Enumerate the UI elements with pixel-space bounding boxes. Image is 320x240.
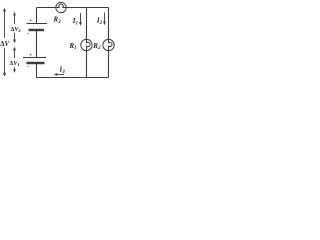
svg-text:ΔV: ΔV [0, 41, 9, 48]
svg-text:+: + [29, 18, 32, 24]
svg-text:−: − [26, 31, 29, 37]
svg-text:−: − [27, 64, 30, 70]
svg-text:+: + [29, 53, 32, 59]
